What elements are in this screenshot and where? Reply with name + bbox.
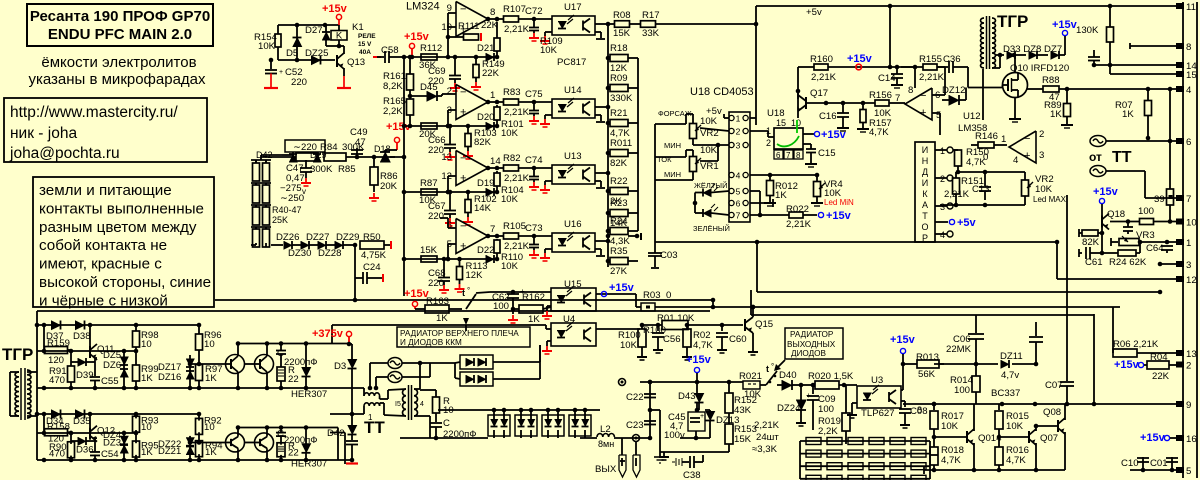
svg-text:МИН: МИН [664,170,681,179]
wire rect bus [460,409,600,411]
svg-text:2: 2 [940,174,945,184]
radiator note box 1 [397,327,530,347]
svg-text:C13: C13 [972,184,990,195]
svg-text:R85: R85 [338,164,356,175]
svg-text:3: 3 [1039,150,1044,161]
transistor Q15 [744,319,746,331]
svg-text:220: 220 [428,278,444,289]
resistor R 22 [277,443,285,457]
svg-text:4: 4 [940,230,945,240]
svg-text:6: 6 [1186,137,1191,148]
svg-text:U13: U13 [564,151,582,162]
wire packs right [493,361,540,363]
capacitor at x1036 [1035,322,1037,336]
wire bottom rail [37,459,330,461]
svg-text:10K: 10K [501,261,519,272]
wire long rail y311 [37,310,710,312]
svg-text:и чёрные с низкой: и чёрные с низкой [39,292,168,309]
svg-text:2: 2 [447,86,452,97]
svg-text:U16: U16 [564,219,582,230]
wire green from U18 [796,120,798,133]
ground red under C67 [449,218,451,223]
svg-text:8мн: 8мн [598,439,614,449]
svg-text:ENDU PFC MAIN 2.0: ENDU PFC MAIN 2.0 [48,26,192,43]
svg-text:D45: D45 [420,82,438,93]
wire driver top rail [37,324,199,326]
svg-text:C22: C22 [626,392,644,403]
ground red under C73 [533,250,535,255]
svg-text:2: 2 [736,127,741,137]
wire [348,337,350,344]
ground red under C62 [512,315,514,320]
svg-text:15: 15 [776,118,786,128]
svg-text:C75: C75 [525,89,543,100]
svg-text:C: C [277,348,284,359]
svg-text:25K: 25K [272,215,288,225]
svg-text:13: 13 [441,152,452,163]
svg-text:1: 1 [1001,134,1006,145]
svg-text:высокой стороны, синие: высокой стороны, синие [39,274,211,291]
connector pin 14 [1176,62,1184,68]
svg-text:1K: 1K [1122,109,1134,120]
svg-text:C16: C16 [819,111,837,122]
svg-text:DZ6: DZ6 [103,360,121,371]
svg-text:Д: Д [922,167,928,177]
svg-text:10: 10 [141,339,152,350]
transistor big b [255,433,274,452]
svg-text:K: K [336,31,343,42]
capacitor C08 [901,400,905,402]
wire driver top rail [37,413,199,415]
svg-text:4,7K: 4,7K [869,127,889,138]
svg-text:1: 1 [490,90,495,101]
wire ladder out [628,235,637,237]
svg-text:VR1: VR1 [700,161,719,172]
svg-text:R82: R82 [503,153,521,164]
svg-text:1K: 1K [436,313,448,324]
ground red under C47 [305,178,307,183]
svg-text:82K: 82K [1082,237,1100,248]
ground red under opto [544,253,546,258]
svg-text:1K: 1K [1050,109,1062,120]
svg-text:8: 8 [908,85,913,96]
svg-text:10K: 10K [501,128,519,139]
svg-text:10K: 10K [941,421,959,432]
wire pack feeds [454,363,456,378]
connector pin 16 [1176,435,1184,441]
svg-text:8: 8 [796,151,801,160]
svg-text:43K: 43K [734,405,752,416]
transistor big a [226,433,245,452]
power +15v blue R022 [818,212,823,217]
svg-text:DZ16: DZ16 [158,372,181,383]
svg-text:МИН: МИН [664,141,681,150]
svg-text:20K: 20K [380,181,398,192]
wire [513,291,551,293]
svg-text:C54: C54 [101,449,119,460]
ground red under opto [544,36,546,41]
diode HER307 [305,344,307,370]
svg-text:R35: R35 [610,246,628,257]
ground red under U4 [547,340,551,342]
wire collector rail [238,343,330,345]
svg-text:220: 220 [428,211,444,222]
rectifier pack upper 1 [460,355,493,369]
wire opto out [595,23,608,25]
svg-text:C74: C74 [525,155,543,166]
svg-text:10K: 10K [501,194,519,205]
svg-text:1K: 1K [141,373,153,384]
svg-text:1K: 1K [141,447,153,458]
svg-text:Q15: Q15 [755,319,773,330]
wire leds [695,192,703,194]
svg-text:8: 8 [490,7,495,18]
svg-text:−: − [460,4,466,16]
wire pin9 feedback vertical [447,13,449,57]
svg-text:R84: R84 [320,142,338,153]
svg-text:1K: 1K [775,190,787,201]
svg-text:ДИОДОВ: ДИОДОВ [791,349,827,358]
chip U18 bottom pins 6 7 8 [774,150,783,159]
wire pin16 [1170,437,1179,439]
svg-text:+15v: +15v [404,31,430,43]
svg-text:5: 5 [1186,466,1191,477]
resistor R97 1K [196,365,203,381]
wire [278,24,339,26]
wire earth jog [648,408,653,413]
wire Q10 gate [1003,84,1009,86]
svg-text:+15v: +15v [1114,359,1140,371]
svg-text:15: 15 [1186,70,1197,81]
svg-text:BC337: BC337 [991,388,1020,399]
url box [4,98,207,162]
svg-text:10K: 10K [874,108,892,119]
wire +5v drop to U18 [755,6,757,125]
connector pin 6 [1176,138,1184,144]
svg-text:PC817: PC817 [557,57,586,68]
wire emitters [237,449,239,460]
svg-text:R162: R162 [522,292,545,303]
svg-text:+15v: +15v [386,121,412,133]
svg-text:HER307: HER307 [291,389,327,400]
wire left bus x655 [654,124,656,230]
diode D39 [78,358,86,366]
svg-text:R87: R87 [420,178,438,189]
ground red under R103 [467,151,469,156]
wire long rail y300 [215,299,713,301]
svg-text:Q08: Q08 [1043,407,1061,418]
wire collector rail [238,427,330,429]
svg-text:22K: 22K [1152,371,1170,382]
arrow to switch [776,360,785,369]
svg-text:t: t [766,364,769,374]
wire vertical x1170 [1169,89,1171,189]
zener row [271,244,283,246]
ground red under C66 [449,152,451,157]
svg-text:2,21K: 2,21K [504,241,530,252]
ground red under D42 cap [351,460,353,462]
chip U18 box [774,128,803,149]
terminal out plus [619,379,626,386]
wire fb row [404,191,497,193]
svg-text:D42: D42 [327,428,345,439]
ground red under C69 [454,83,456,88]
connector right rail [1182,2,1184,478]
svg-text:100: 100 [818,404,834,415]
wire base link [190,363,226,365]
svg-text:C: C [443,418,450,429]
relay K1 [331,31,347,41]
wire op-amp out [488,101,504,103]
svg-text:D21: D21 [477,43,494,54]
svg-text:C07: C07 [1045,380,1063,391]
svg-text:Н: Н [922,156,929,166]
svg-text:R105: R105 [503,221,526,232]
svg-text:+5v: +5v [957,217,977,229]
ground red under R149 [475,82,477,87]
svg-text:15K: 15K [420,245,438,256]
svg-text:330K: 330K [610,93,633,104]
svg-text:6: 6 [736,199,741,209]
transistor big b [255,355,274,374]
wire [797,67,799,118]
transistor Q13 [336,55,338,67]
wire ch1 rail to TT [330,387,364,389]
svg-text:U12: U12 [963,111,981,122]
svg-text:ТГР: ТГР [2,345,33,364]
svg-text:Т: Т [922,211,928,221]
wire gnd rail bottom left mid [680,437,710,439]
svg-text:ВЫХОДНЫХ: ВЫХОДНЫХ [787,340,836,349]
op-amp channel U13 [456,151,488,186]
svg-text:от: от [1089,150,1102,164]
svg-text:7: 7 [736,211,741,221]
svg-text:Q13: Q13 [347,57,365,68]
capacitor C 2200pf [280,344,282,351]
svg-text:7: 7 [786,151,791,160]
ground red under U15 [547,305,551,307]
svg-text:+15v: +15v [1052,19,1078,31]
svg-text:K1: K1 [352,22,364,33]
wire pin1 [655,241,1057,243]
svg-text:+15v: +15v [686,354,712,366]
wire chip [750,130,768,132]
resistor R 10 [433,397,440,413]
svg-text:10: 10 [141,422,152,433]
svg-text:10K: 10K [258,41,276,52]
capacitor C61 [1078,249,1080,257]
svg-text:11: 11 [1186,2,1196,13]
svg-text:DZ3: DZ3 [103,437,121,448]
svg-text:R09: R09 [610,73,628,84]
svg-text:C24: C24 [363,262,381,273]
wire long rail y325mid [332,324,546,326]
svg-text:+: + [1024,150,1030,162]
transistor big a [226,355,245,374]
svg-text:14: 14 [490,156,501,167]
svg-text:+: + [460,107,466,119]
svg-text:2,21K: 2,21K [504,173,530,184]
svg-text:13: 13 [1186,349,1197,360]
svg-text:U14: U14 [564,85,582,96]
svg-text:220: 220 [291,77,307,88]
svg-text:DZ24: DZ24 [777,403,801,414]
svg-text:33K: 33K [642,28,660,39]
svg-text:DZ26: DZ26 [276,232,299,243]
svg-text:100: 100 [954,385,970,396]
svg-text:РАДИАТОР ВЕРХНЕГО ПЛЕЧА: РАДИАТОР ВЕРХНЕГО ПЛЕЧА [400,329,519,338]
resistor R 20K [421,123,437,129]
svg-text:+15v: +15v [1093,186,1119,198]
wire opto out [595,106,608,108]
resistor R93 10 [133,416,140,432]
svg-text:I5: I5 [395,401,401,408]
connector pin 3 [1176,261,1184,267]
radiator note box 2 [785,328,843,359]
svg-text:ТТ: ТТ [364,418,385,437]
svg-text:1K: 1K [205,447,217,458]
svg-text:+15v: +15v [1140,432,1166,444]
svg-text:10K: 10K [700,145,718,156]
svg-text:К: К [922,189,928,199]
connector pin 2 [1176,362,1184,368]
svg-text:указаны в микрофарадах: указаны в микрофарадах [28,71,206,88]
svg-text:R17: R17 [642,10,660,21]
capacitor at Q18 [1127,222,1129,228]
power +15v blue U18 [803,133,814,135]
svg-text:C36: C36 [943,54,961,65]
connector pin 9 [1176,401,1184,407]
svg-text:U17: U17 [564,2,582,13]
capacitor C55 [94,358,96,376]
svg-text:И: И [922,145,928,155]
svg-text:0: 0 [666,290,671,301]
wire pin3 [1160,263,1179,265]
rectifier pack upper 2 [460,372,493,386]
svg-text:D39: D39 [76,370,94,381]
svg-text:t: t [462,288,465,298]
wire opto left pin [545,31,552,33]
svg-text:ТТ: ТТ [1112,149,1132,166]
svg-text:ник - joha: ник - joha [10,125,77,142]
wire array ends [799,441,801,479]
wire [260,155,262,160]
svg-text:C64: C64 [1146,243,1164,254]
wire [889,6,891,67]
svg-text:1K: 1K [528,314,540,325]
svg-text:+: + [700,413,704,420]
connector pin 7 [1176,195,1184,201]
svg-text:120: 120 [48,355,64,366]
svg-text:R40-47: R40-47 [272,205,302,215]
connector pin 15 [1176,71,1184,77]
wire bottom rail [37,387,330,389]
svg-text:22: 22 [288,374,299,385]
capacitor D42 gnd [346,440,358,442]
wire mid rail [37,350,136,352]
wire op-amp out [488,167,504,169]
svg-text:D43: D43 [678,391,696,402]
svg-text:+: + [460,241,466,253]
wire op-amp out [488,235,504,237]
svg-text:R159: R159 [47,338,70,349]
svg-text:14K: 14K [474,203,492,214]
svg-text:DZ21: DZ21 [158,446,181,457]
svg-text:TLP627: TLP627 [861,408,895,419]
svg-text:8,2K: 8,2K [383,81,403,92]
svg-text:R88: R88 [1042,75,1060,86]
svg-text:4,75K: 4,75K [361,250,387,261]
wire pin6 tap [448,227,456,229]
ground red under C52 [264,87,278,89]
svg-text:10K: 10K [744,389,762,400]
resistor R95 1K [133,441,140,457]
wire [1064,36,1066,55]
wire down from DZ row [354,278,356,300]
svg-text:2,21K: 2,21K [504,107,530,118]
svg-text:4,7K: 4,7K [966,157,986,168]
svg-text:D20: D20 [477,112,494,123]
svg-text:R23: R23 [610,198,628,209]
wire fb row [404,258,497,260]
transformer TT main [408,385,410,420]
svg-text:47: 47 [355,137,366,148]
wire [1056,242,1058,279]
transistor Q11 [89,346,91,358]
connector pin 1 [1176,239,1184,245]
svg-text:R24: R24 [610,216,628,227]
ground red under C75 [533,116,535,121]
svg-text:4,7v: 4,7v [1001,370,1019,381]
svg-text:R24 62K: R24 62K [1109,257,1147,268]
svg-text:D22: D22 [477,245,494,256]
power +5v blue [935,221,948,223]
svg-text:D40: D40 [779,370,797,381]
svg-text:R83: R83 [503,87,521,98]
svg-text:300K: 300K [310,164,333,175]
wire gate from C36 [967,72,969,88]
svg-text:C10: C10 [1121,458,1139,469]
wire dz11 row [934,363,998,365]
svg-text:DZ12: DZ12 [942,85,965,96]
wire out rail [580,437,597,439]
svg-text:4: 4 [1186,85,1192,96]
resistor array 2,21K 24pcs [800,440,930,442]
resistor R92 10 [196,418,203,434]
svg-text:Led MAX: Led MAX [1033,195,1067,204]
wire Q10 source [1014,98,1016,119]
svg-text:2,21K: 2,21K [919,72,945,83]
svg-text:+: + [806,391,811,400]
connector pin 13 [1176,350,1184,356]
svg-text:4: 4 [1013,155,1019,166]
svg-text:joha@pochta.ru: joha@pochta.ru [9,145,120,162]
svg-text:3: 3 [736,141,741,151]
svg-text:И ДИОДОВ ККМ: И ДИОДОВ ККМ [400,338,462,347]
svg-text:C: C [277,429,284,440]
svg-text:2,21K: 2,21K [811,72,837,83]
wire ac sources [370,362,388,364]
op-amp channel U16 [456,219,488,254]
op-amp channel U17 [456,2,488,37]
ground red under C68 [443,285,445,290]
svg-text:22: 22 [288,448,299,459]
svg-text:DZ29: DZ29 [336,232,359,243]
svg-text:22K: 22K [481,20,499,31]
led green [703,209,711,217]
svg-text:D35: D35 [73,416,91,427]
svg-text:R22: R22 [610,176,628,187]
